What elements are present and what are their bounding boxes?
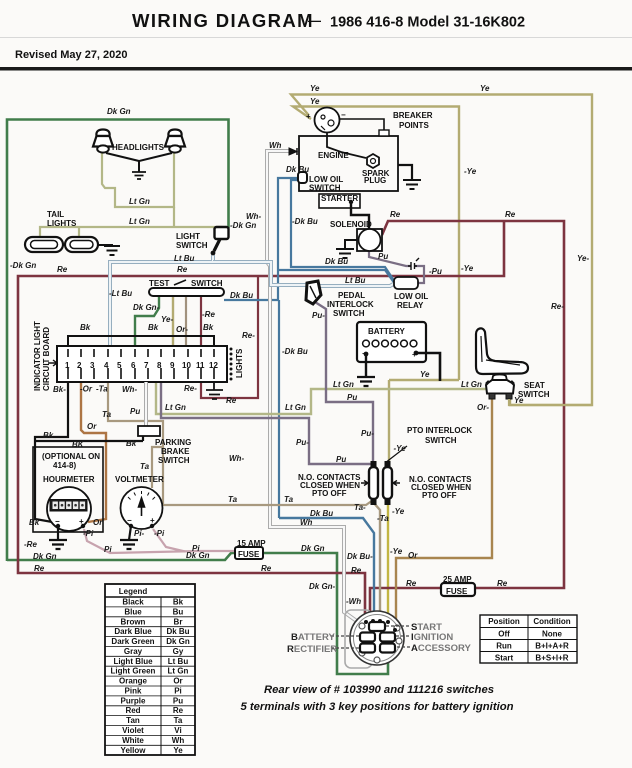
wire Lt Gn tail lights to light switch — [40, 207, 222, 236]
svg-text:PARKING: PARKING — [155, 438, 191, 447]
svg-text:Position: Position — [488, 617, 520, 626]
svg-text:Run: Run — [496, 642, 512, 651]
starter box — [319, 194, 360, 208]
svg-text:Pu: Pu — [130, 407, 140, 416]
wire Dk Bu low oil tab bundle — [224, 178, 300, 300]
svg-text:Re: Re — [390, 210, 401, 219]
svg-text:Pu-: Pu- — [361, 429, 374, 438]
headlight right bulb — [165, 130, 185, 153]
ground headlights — [132, 172, 146, 179]
svg-text:Wh: Wh — [172, 736, 185, 745]
svg-text:Bk-: Bk- — [53, 385, 66, 394]
svg-text:Ta: Ta — [140, 462, 150, 471]
svg-text:6: 6 — [131, 361, 136, 370]
wire parking brake black lead — [142, 436, 144, 441]
wire Ta pin 4 to voltmeter and PTO — [108, 382, 373, 505]
headlight left bulb — [93, 130, 113, 153]
svg-text:Re-: Re- — [551, 302, 564, 311]
svg-text:B+I+A+R: B+I+A+R — [535, 642, 569, 651]
svg-text:Tan: Tan — [126, 716, 140, 725]
svg-text:Lt Bu: Lt Bu — [345, 276, 366, 285]
wire Ta PTO to ignition — [373, 502, 380, 620]
svg-text:−: − — [341, 111, 346, 120]
svg-text:-Dk Gn: -Dk Gn — [230, 221, 256, 230]
ground voltmeter — [120, 540, 138, 549]
svg-text:BK: BK — [72, 440, 85, 449]
optional box — [33, 447, 103, 532]
label LIGHTS with dots — [230, 348, 245, 381]
wire Dk Gn test switch to pin 6 — [135, 295, 159, 348]
wire Ye battery to PTO to ignition — [389, 380, 459, 463]
svg-text:Red: Red — [125, 706, 140, 715]
wire Ta branch to voltmeter — [152, 447, 163, 488]
svg-text:Gy: Gy — [173, 647, 184, 656]
svg-text:TAIL: TAIL — [47, 210, 64, 219]
svg-text:Wh-: Wh- — [246, 212, 261, 221]
svg-text:Bk: Bk — [203, 323, 214, 332]
svg-text:Dk Gn: Dk Gn — [33, 552, 57, 561]
svg-text:Wh: Wh — [269, 141, 282, 150]
svg-text:11: 11 — [196, 361, 205, 370]
svg-text:Re: Re — [261, 564, 272, 573]
wire Dk Bu tab to vert2 — [291, 180, 395, 282]
board pin ticks and numbers — [65, 349, 218, 379]
wire breaker minus to engine — [339, 119, 384, 130]
svg-text:ENGINE: ENGINE — [318, 151, 349, 160]
svg-text:VOLTMETER: VOLTMETER — [115, 475, 164, 484]
svg-text:Lt Bu: Lt Bu — [168, 657, 189, 666]
svg-text:Bu: Bu — [173, 607, 184, 616]
svg-text:-Ye: -Ye — [394, 444, 407, 453]
PTO label arrow — [385, 446, 407, 463]
svg-text:Wh-: Wh- — [229, 454, 244, 463]
svg-text:HOURMETER: HOURMETER — [43, 475, 95, 484]
light switch — [211, 227, 229, 255]
svg-text:SEAT: SEAT — [524, 381, 545, 390]
svg-text:10: 10 — [182, 361, 191, 370]
wh diode — [289, 148, 297, 155]
svg-text:WIRING DIAGRAM: WIRING DIAGRAM — [132, 10, 314, 31]
solenoid — [357, 229, 382, 251]
svg-text:Bk: Bk — [148, 323, 159, 332]
svg-text:SWITCH: SWITCH — [425, 436, 457, 445]
svg-text:FUSE: FUSE — [238, 550, 260, 559]
svg-text:Bk: Bk — [29, 518, 40, 527]
wire Lt Bu pedal interlock to relay — [320, 283, 395, 286]
position condition table — [480, 615, 577, 663]
svg-text:-Ye: -Ye — [392, 507, 405, 516]
svg-text:FUSE: FUSE — [446, 587, 468, 596]
wire battery ground lead — [365, 356, 367, 377]
test switch lever — [174, 280, 186, 285]
svg-text:Re: Re — [173, 706, 184, 715]
svg-text:LIGHT: LIGHT — [176, 232, 200, 241]
svg-text:Ta-: Ta- — [354, 503, 366, 512]
svg-text:Lt Gn: Lt Gn — [129, 197, 150, 206]
svg-text:1986 416-8 Model 31-16K802: 1986 416-8 Model 31-16K802 — [330, 15, 525, 31]
tail light left — [25, 237, 63, 252]
ignition terminal I — [380, 633, 395, 642]
ground spark plug — [403, 180, 421, 189]
ignition terminal A — [380, 644, 395, 653]
svg-text:Re: Re — [505, 210, 516, 219]
low oil relay — [394, 277, 418, 289]
svg-text:Dk Gn-: Dk Gn- — [309, 582, 336, 591]
svg-text:Lt Gn: Lt Gn — [333, 380, 354, 389]
wire voltmeter ground lead — [129, 526, 131, 540]
svg-text:+: + — [306, 112, 311, 121]
ignition terminal B — [360, 633, 375, 642]
svg-text:Ye: Ye — [173, 746, 183, 755]
svg-text:PTO INTERLOCK: PTO INTERLOCK — [407, 426, 472, 435]
ground tail lights — [104, 246, 120, 255]
wire Re 25A fuse to ignition — [370, 588, 441, 619]
svg-text:Dk Bu: Dk Bu — [230, 291, 253, 300]
svg-text:Lt Gn: Lt Gn — [461, 380, 482, 389]
svg-text:Orange: Orange — [119, 677, 148, 686]
parking brake switch — [138, 426, 160, 436]
svg-text:9: 9 — [170, 361, 175, 370]
PTO interlock switch — [361, 461, 400, 505]
engine top notch — [379, 130, 389, 136]
svg-text:RELAY: RELAY — [397, 301, 424, 310]
svg-text:Revised May 27, 2020: Revised May 27, 2020 — [15, 49, 128, 61]
svg-text:-Re: -Re — [24, 540, 37, 549]
wire starter to solenoid — [351, 202, 369, 229]
wire labels — [10, 84, 589, 606]
svg-text:Violet: Violet — [122, 726, 144, 735]
svg-text:Pink: Pink — [125, 687, 142, 696]
indicator light circuit board — [57, 346, 227, 382]
svg-text:5: 5 — [117, 361, 122, 370]
svg-text:BREAKER: BREAKER — [393, 111, 433, 120]
wire solenoid ground lead — [345, 240, 357, 249]
voltmeter — [121, 487, 163, 529]
svg-text:Bk: Bk — [43, 431, 54, 440]
wire breaker to spark plug — [327, 133, 366, 158]
svg-text:8: 8 — [157, 361, 162, 370]
wire Or pin 2 to hourmeter — [81, 382, 106, 522]
svg-text:Or-: Or- — [477, 403, 489, 412]
wire headlight ground leads — [106, 153, 172, 172]
svg-text:SWITCH: SWITCH — [158, 456, 190, 465]
svg-text:Bk: Bk — [126, 439, 137, 448]
svg-text:Bk: Bk — [173, 598, 184, 607]
svg-text:(OPTIONAL ON: (OPTIONAL ON — [42, 452, 100, 461]
ground battery — [357, 377, 375, 386]
svg-text:Dk Bu: Dk Bu — [325, 257, 348, 266]
svg-text:4: 4 — [104, 361, 109, 370]
svg-text:Dk Bu: Dk Bu — [310, 509, 333, 518]
svg-text:Light Green: Light Green — [111, 667, 156, 676]
svg-text:−: − — [127, 516, 132, 525]
25 AMP fuse — [441, 575, 475, 596]
svg-text:-Pu: -Pu — [429, 267, 442, 276]
svg-text:Bk: Bk — [80, 323, 91, 332]
svg-text:-Pi: -Pi — [154, 529, 165, 538]
svg-text:CIRCUIT BOARD: CIRCUIT BOARD — [42, 327, 51, 391]
svg-text:Dk Bu: Dk Bu — [286, 165, 309, 174]
wire Pu solenoid to relay cap — [369, 251, 424, 283]
15 AMP fuse — [235, 539, 266, 559]
wire Bk pin 1 down — [35, 382, 68, 523]
svg-text:Lt Gn: Lt Gn — [285, 403, 306, 412]
wire Dk Gn headlight loop — [7, 120, 229, 562]
svg-text:RECTIFIER: RECTIFIER — [287, 644, 337, 655]
svg-text:Purple: Purple — [121, 696, 146, 705]
svg-text:B+S+I+R: B+S+I+R — [535, 654, 568, 663]
svg-text:2: 2 — [77, 361, 82, 370]
svg-text:Brown: Brown — [121, 617, 146, 626]
svg-text:Light Blue: Light Blue — [113, 657, 153, 666]
ignition terminal R — [360, 644, 375, 653]
svg-text:Gray: Gray — [124, 647, 143, 656]
svg-text:Re-: Re- — [184, 384, 197, 393]
wire Re test switch to pin 11 — [200, 295, 202, 348]
svg-text:SWITCH: SWITCH — [333, 309, 365, 318]
svg-text:Ye: Ye — [514, 396, 524, 405]
svg-text:Condition: Condition — [533, 617, 570, 626]
svg-text:PTO OFF: PTO OFF — [312, 489, 347, 498]
title — [132, 10, 525, 31]
svg-text:BATTERY: BATTERY — [291, 632, 335, 643]
svg-text:Pu: Pu — [378, 252, 388, 261]
svg-text:Re: Re — [406, 579, 417, 588]
svg-text:Pu: Pu — [336, 455, 346, 464]
svg-text:SOLENOID: SOLENOID — [330, 220, 372, 229]
svg-text:Pu-: Pu- — [312, 311, 325, 320]
svg-text:Pu-: Pu- — [296, 438, 309, 447]
svg-text:Dk Bu: Dk Bu — [166, 627, 189, 636]
board arrow — [48, 360, 57, 366]
relay cap symbol — [408, 258, 419, 270]
low oil switch tab — [298, 172, 307, 183]
svg-text:-Dk Gn: -Dk Gn — [10, 261, 36, 270]
svg-text:Pu: Pu — [347, 393, 357, 402]
svg-text:-Or: -Or — [80, 385, 93, 394]
svg-text:Dk Gn: Dk Gn — [107, 107, 131, 116]
svg-text:3: 3 — [90, 361, 95, 370]
breaker points circle — [306, 108, 346, 133]
wire Bk parking brake to left — [35, 440, 143, 442]
wire spark plug ground lead — [398, 165, 412, 180]
svg-text:SWITCH: SWITCH — [176, 241, 208, 250]
svg-text:Or-: Or- — [176, 325, 188, 334]
hourmeter — [47, 487, 91, 531]
svg-text:INDICATOR LIGHT: INDICATOR LIGHT — [33, 321, 42, 391]
svg-text:Dark Blue: Dark Blue — [114, 627, 152, 636]
svg-text:HEADLIGHTS: HEADLIGHTS — [112, 143, 165, 152]
faint scan rule — [0, 37, 632, 38]
svg-text:Or: Or — [93, 518, 103, 527]
svg-text:-Ye: -Ye — [390, 547, 403, 556]
svg-text:Yellow: Yellow — [121, 746, 147, 755]
svg-text:Legend: Legend — [119, 587, 148, 596]
svg-text:Lt Gn: Lt Gn — [165, 403, 186, 412]
svg-text:Dark Green: Dark Green — [111, 637, 154, 646]
svg-text:ACCESSORY: ACCESSORY — [411, 643, 472, 654]
svg-text:Ye-: Ye- — [577, 254, 589, 263]
svg-text:Or: Or — [408, 551, 418, 560]
svg-text:PEDAL: PEDAL — [338, 291, 365, 300]
ground solenoid — [336, 249, 354, 258]
svg-text:+: + — [150, 516, 155, 525]
svg-text:Br: Br — [174, 617, 183, 626]
svg-text:-Re: -Re — [202, 310, 215, 319]
wire hourmeter ground lead — [57, 526, 59, 540]
dashes to labels — [331, 626, 410, 648]
wire Ye test switch to pin 9 — [172, 295, 174, 348]
wire Lt Gn board to seat switch — [156, 382, 488, 414]
svg-text:Pi-: Pi- — [134, 529, 145, 538]
svg-text:Ye: Ye — [420, 370, 430, 379]
svg-text:Re-: Re- — [242, 331, 255, 340]
svg-text:Or: Or — [87, 422, 97, 431]
svg-text:Re: Re — [177, 265, 188, 274]
wire Re board feed — [201, 277, 258, 398]
svg-text:Wh: Wh — [300, 518, 313, 527]
svg-text:-Ye: -Ye — [461, 264, 474, 273]
svg-text:Dk Bu-: Dk Bu- — [347, 552, 373, 561]
svg-text:Pi: Pi — [174, 687, 182, 696]
svg-text:-Ye: -Ye — [464, 167, 477, 176]
seat switch pedestal — [486, 375, 514, 400]
wire Ye top line 2 — [293, 107, 459, 381]
ignition switch — [350, 611, 404, 665]
svg-text:-Ta: -Ta — [377, 514, 389, 523]
svg-text:12: 12 — [209, 361, 218, 370]
ignition terminal S — [369, 622, 385, 631]
wire Re big box — [18, 221, 504, 622]
ignition switch plate — [345, 610, 372, 668]
engine box — [299, 136, 398, 191]
ground hourmeter — [49, 540, 67, 549]
svg-text:-Dk Bu: -Dk Bu — [292, 217, 318, 226]
svg-text:-Ta: -Ta — [96, 385, 108, 394]
test switch bar — [149, 288, 224, 296]
svg-text:Ta: Ta — [102, 410, 112, 419]
pedal interlock switch — [306, 281, 321, 304]
svg-text:5 terminals with 3 key positio: 5 terminals with 3 key positions for bat… — [240, 701, 513, 713]
wire Or test switch to pin 10 — [185, 295, 187, 348]
svg-text:SWITCH: SWITCH — [191, 279, 223, 288]
svg-text:BATTERY: BATTERY — [368, 327, 406, 336]
svg-text:Re: Re — [226, 396, 237, 405]
svg-text:Re: Re — [34, 564, 45, 573]
svg-text:Pu: Pu — [173, 696, 183, 705]
svg-text:Blue: Blue — [124, 607, 142, 616]
svg-text:None: None — [542, 630, 563, 639]
svg-text:Vi: Vi — [174, 726, 181, 735]
svg-text:SWITCH: SWITCH — [309, 184, 341, 193]
svg-text:Or: Or — [173, 677, 182, 686]
wire Lt Bu light switch to pin 4 — [110, 255, 213, 348]
svg-text:-Pi: -Pi — [83, 529, 94, 538]
wire Wh headlight diode to ignition — [267, 151, 358, 622]
svg-text:—: — — [308, 13, 321, 28]
wire Or seat switch to ignition — [395, 399, 492, 630]
wire Re solenoid feed — [382, 221, 564, 588]
wire Ye PTO to ignition switch — [387, 503, 389, 620]
wire Pu pin 8 to PTO — [161, 382, 371, 464]
svg-text:1: 1 — [65, 361, 70, 370]
wire Wh pin 7 to parking brake — [144, 382, 148, 426]
wire Dk Gn fuse to ignition — [261, 553, 388, 674]
svg-text:Lt Gn: Lt Gn — [129, 217, 150, 226]
svg-text:Ta: Ta — [228, 495, 238, 504]
svg-text:LOW OIL: LOW OIL — [394, 292, 428, 301]
svg-text:-Wh: -Wh — [346, 597, 361, 606]
svg-text:Dk Gn: Dk Gn — [166, 637, 190, 646]
wire battery plus lead — [416, 353, 440, 381]
svg-text:IGNITION: IGNITION — [411, 632, 453, 643]
svg-text:Ta: Ta — [174, 716, 183, 725]
wire Dk Gn left bottom to 15A fuse — [7, 553, 236, 560]
svg-text:Ta: Ta — [284, 495, 294, 504]
svg-text:Re: Re — [57, 265, 68, 274]
svg-text:Lt Gn: Lt Gn — [168, 667, 189, 676]
svg-text:POINTS: POINTS — [399, 121, 429, 130]
svg-text:LIGHTS: LIGHTS — [47, 219, 77, 228]
svg-text:Ye: Ye — [310, 97, 320, 106]
svg-text:Dk Gn: Dk Gn — [186, 551, 210, 560]
wire tail light ground lead — [98, 245, 112, 246]
svg-text:TEST: TEST — [149, 279, 170, 288]
legend table — [105, 584, 195, 755]
wire Pu pedal interlock to PTO — [315, 302, 373, 462]
svg-text:Start: Start — [495, 654, 514, 663]
tail light right — [65, 237, 98, 252]
seat — [476, 328, 528, 374]
wire Dk Bu to ignition switch — [279, 518, 374, 622]
wire Pi hourmeter to fuse — [84, 529, 236, 553]
svg-text:Re: Re — [351, 566, 362, 575]
wire seat switch yellow drop — [509, 399, 592, 405]
svg-text:Ye: Ye — [310, 84, 320, 93]
svg-text:Wh-: Wh- — [122, 385, 137, 394]
battery — [357, 322, 426, 362]
svg-text:INTERLOCK: INTERLOCK — [327, 300, 374, 309]
svg-text:Ye: Ye — [480, 84, 490, 93]
svg-text:White: White — [122, 736, 144, 745]
wire Ye top line 1 — [291, 95, 592, 406]
svg-text:414-8): 414-8) — [53, 461, 76, 470]
svg-text:Rear view of # 103990 and 1112: Rear view of # 103990 and 111216 switche… — [264, 684, 494, 696]
svg-text:Dk Gn: Dk Gn — [301, 544, 325, 553]
svg-text:Ye-: Ye- — [161, 315, 173, 324]
svg-text:Off: Off — [498, 630, 510, 639]
svg-text:-Lt Bu: -Lt Bu — [109, 289, 132, 298]
svg-text:Lt Bu: Lt Bu — [174, 254, 195, 263]
wire Dk Bu left long vertical — [278, 300, 280, 518]
horizontal rule — [0, 67, 632, 71]
svg-text:Black: Black — [122, 598, 144, 607]
svg-text:Pi: Pi — [104, 545, 112, 554]
svg-text:PTO OFF: PTO OFF — [422, 491, 457, 500]
svg-text:PLUG: PLUG — [364, 176, 386, 185]
svg-text:-Dk Bu: -Dk Bu — [282, 347, 308, 356]
wire Pi voltmeter branch — [153, 529, 185, 552]
wire Lt Gn headlights — [102, 153, 174, 207]
svg-text:LIGHTS: LIGHTS — [235, 348, 244, 378]
spark plug — [362, 154, 390, 185]
svg-text:Re: Re — [497, 579, 508, 588]
wire Lt Bu light switch to pedal interlock — [213, 262, 306, 285]
svg-text:7: 7 — [144, 361, 149, 370]
wire Dk Bu lower horizontal to relay — [278, 270, 395, 284]
ground board pin 12 — [206, 382, 223, 399]
wire Bk bus above board — [68, 336, 214, 348]
